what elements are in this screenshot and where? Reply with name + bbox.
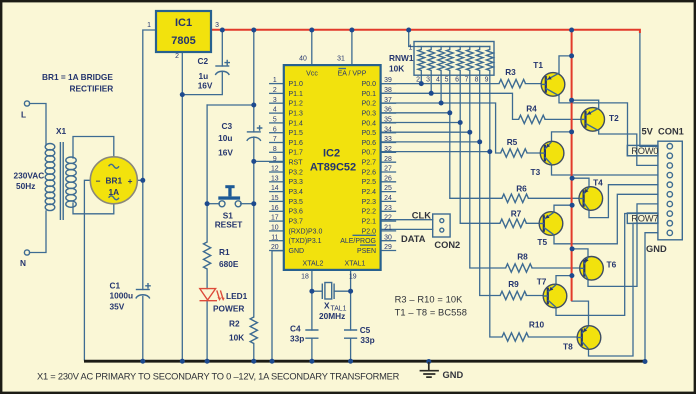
svg-text:IC2: IC2 [323,148,340,160]
svg-text:X: X [324,301,330,311]
svg-text:R5: R5 [507,137,518,147]
svg-text:P1.3: P1.3 [289,110,304,117]
svg-text:33: 33 [384,136,392,143]
svg-text:1: 1 [273,77,277,84]
svg-text:7: 7 [465,77,469,84]
svg-text:DATA: DATA [401,234,426,244]
svg-text:680E: 680E [219,259,239,269]
svg-text:P0.7: P0.7 [362,150,377,157]
svg-text:3: 3 [273,97,277,104]
svg-text:5: 5 [273,116,277,123]
svg-text:10: 10 [271,225,279,232]
svg-text:POWER: POWER [213,304,244,314]
svg-text:CON2: CON2 [434,240,460,250]
svg-text:38: 38 [384,87,392,94]
svg-text:P3.4: P3.4 [289,189,304,196]
svg-text:T3: T3 [531,167,541,177]
svg-text:P1.5: P1.5 [289,130,304,137]
svg-text:33p: 33p [290,334,304,344]
svg-text:EA / VPP: EA / VPP [338,71,367,78]
svg-text:14: 14 [271,185,279,192]
svg-text:7: 7 [273,136,277,143]
svg-text:P2.6: P2.6 [362,169,377,176]
svg-text:37: 37 [384,97,392,104]
svg-text:9: 9 [273,156,277,163]
svg-text:23: 23 [384,205,392,212]
svg-text:R7: R7 [511,209,522,219]
svg-text:R10: R10 [529,320,545,330]
svg-text:12: 12 [271,166,279,173]
svg-text:8: 8 [273,146,277,153]
svg-text:T8: T8 [563,342,573,352]
svg-text:39: 39 [384,77,392,84]
svg-text:19: 19 [349,274,357,281]
svg-text:24: 24 [384,195,392,202]
svg-text:C5: C5 [360,325,371,335]
svg-text:50Hz: 50Hz [16,181,35,191]
svg-text:5V: 5V [642,127,654,137]
svg-text:T4: T4 [593,178,603,188]
svg-text:1000u: 1000u [110,290,134,300]
svg-text:R9: R9 [508,279,519,289]
svg-text:2: 2 [175,53,179,60]
svg-text:ALE/PROG: ALE/PROG [340,238,376,245]
svg-text:P2.0: P2.0 [362,228,377,235]
svg-text:36: 36 [384,107,392,114]
svg-text:6: 6 [273,126,277,133]
svg-text:PSEN: PSEN [357,248,376,255]
svg-text:P0.3: P0.3 [362,110,377,117]
svg-text:P1.2: P1.2 [289,101,304,108]
svg-text:29: 29 [384,244,392,251]
svg-text:RST: RST [289,160,304,167]
svg-text:15: 15 [271,195,279,202]
svg-text:16: 16 [271,205,279,212]
svg-text:7805: 7805 [171,35,195,47]
svg-text:P1.7: P1.7 [289,150,304,157]
svg-text:10u: 10u [218,133,232,143]
svg-text:P2.3: P2.3 [362,199,377,206]
svg-text:20MHz: 20MHz [319,311,345,321]
svg-text:C1: C1 [110,280,121,290]
svg-text:T2: T2 [609,113,619,123]
svg-text:C3: C3 [222,121,233,131]
svg-text:3: 3 [215,22,219,29]
svg-text:R2: R2 [229,319,240,329]
svg-text:6: 6 [455,77,459,84]
svg-text:1: 1 [409,45,413,52]
svg-text:T1 – T8 = BC558: T1 – T8 = BC558 [395,308,467,318]
svg-text:10K: 10K [229,333,244,343]
svg-text:ROW7: ROW7 [631,214,658,224]
svg-text:9: 9 [485,77,489,84]
svg-text:26: 26 [384,175,392,182]
svg-text:P3.6: P3.6 [289,209,304,216]
svg-text:35V: 35V [110,302,125,312]
svg-text:P0.2: P0.2 [362,101,377,108]
svg-text:P0.5: P0.5 [362,130,377,137]
svg-text:P0.0: P0.0 [362,81,377,88]
svg-text:P2.4: P2.4 [362,189,377,196]
svg-text:+: + [128,176,133,186]
svg-text:16V: 16V [218,148,233,158]
svg-text:31: 31 [337,56,345,63]
svg-text:GND: GND [646,244,667,254]
svg-text:P2.2: P2.2 [362,209,377,216]
svg-text:CON1: CON1 [658,127,684,137]
svg-text:P1.4: P1.4 [289,120,304,127]
svg-text:230VAC: 230VAC [14,171,45,181]
svg-text:1A: 1A [108,187,119,197]
svg-text:P0.4: P0.4 [362,120,377,127]
svg-text:X1 = 230V AC PRIMARY TO SECOND: X1 = 230V AC PRIMARY TO SECONDARY TO 0 –… [37,372,400,382]
svg-text:P0.1: P0.1 [362,91,377,98]
svg-text:−: − [96,176,101,186]
svg-text:AT89C52: AT89C52 [310,161,356,173]
svg-text:34: 34 [384,126,392,133]
svg-text:20: 20 [271,244,279,251]
svg-text:XTAL1: XTAL1 [345,261,366,268]
svg-text:11: 11 [271,234,278,241]
svg-text:2: 2 [273,87,277,94]
svg-text:P2.1: P2.1 [362,218,377,225]
svg-text:17: 17 [271,215,279,222]
svg-text:(RXD)P3.0: (RXD)P3.0 [289,228,323,235]
svg-text:ROW0: ROW0 [631,146,658,156]
svg-text:XTAL2: XTAL2 [303,261,324,268]
svg-text:4: 4 [273,107,277,114]
svg-text:P1.6: P1.6 [289,140,304,147]
svg-text:P3.7: P3.7 [289,218,304,225]
svg-text:L: L [21,110,26,120]
svg-text:T7: T7 [537,277,547,287]
svg-text:P2.7: P2.7 [362,160,377,167]
svg-text:CLK: CLK [412,211,431,221]
svg-text:RNW1: RNW1 [389,53,414,63]
svg-text:8: 8 [475,77,479,84]
svg-text:35: 35 [384,116,392,123]
svg-text:1: 1 [147,22,151,29]
svg-text:R3 – R10 = 10K: R3 – R10 = 10K [395,295,464,305]
svg-text:40: 40 [299,56,307,63]
svg-text:T1: T1 [533,60,543,70]
svg-text:18: 18 [301,274,309,281]
svg-text:16V: 16V [198,81,213,91]
svg-text:IC1: IC1 [175,17,192,29]
svg-text:P1.1: P1.1 [289,91,304,98]
svg-text:5: 5 [445,77,449,84]
svg-text:21: 21 [384,225,392,232]
svg-text:R8: R8 [517,252,528,262]
svg-text:P3.3: P3.3 [289,179,304,186]
svg-text:X1: X1 [56,126,67,136]
svg-text:C2: C2 [198,56,209,66]
svg-text:2: 2 [416,77,420,84]
svg-text:P2.5: P2.5 [362,179,377,186]
svg-text:RECTIFIER: RECTIFIER [70,83,114,93]
svg-text:32: 32 [384,146,392,153]
svg-text:R3: R3 [505,67,516,77]
svg-text:R1: R1 [219,247,230,257]
svg-text:33p: 33p [360,335,374,345]
svg-text:RESET: RESET [215,219,243,229]
svg-text:BR1 = 1A BRIDGE: BR1 = 1A BRIDGE [42,72,113,82]
svg-text:4: 4 [436,77,440,84]
svg-text:10K: 10K [389,64,404,74]
svg-text:25: 25 [384,185,392,192]
svg-text:N: N [20,258,26,268]
svg-text:T6: T6 [607,260,617,270]
svg-text:22: 22 [384,215,392,222]
svg-text:30: 30 [384,234,392,241]
svg-text:Vcc: Vcc [306,71,318,78]
svg-text:3: 3 [426,77,430,84]
svg-text:P3.5: P3.5 [289,199,304,206]
svg-text:LED1: LED1 [226,291,248,301]
svg-text:13: 13 [271,175,279,182]
svg-text:P1.0: P1.0 [289,81,304,88]
svg-text:BR1: BR1 [105,176,122,186]
svg-text:P3.2: P3.2 [289,169,304,176]
svg-text:GND: GND [443,370,464,380]
svg-text:C4: C4 [290,324,301,334]
svg-text:28: 28 [384,156,392,163]
svg-text:P0.6: P0.6 [362,140,377,147]
svg-text:T5: T5 [537,237,547,247]
svg-text:(TXD)P3.1: (TXD)P3.1 [289,238,322,245]
svg-text:GND: GND [289,248,305,255]
svg-text:27: 27 [384,166,392,173]
svg-text:1u: 1u [199,71,209,81]
svg-text:R6: R6 [516,184,527,194]
svg-text:R4: R4 [526,104,537,114]
